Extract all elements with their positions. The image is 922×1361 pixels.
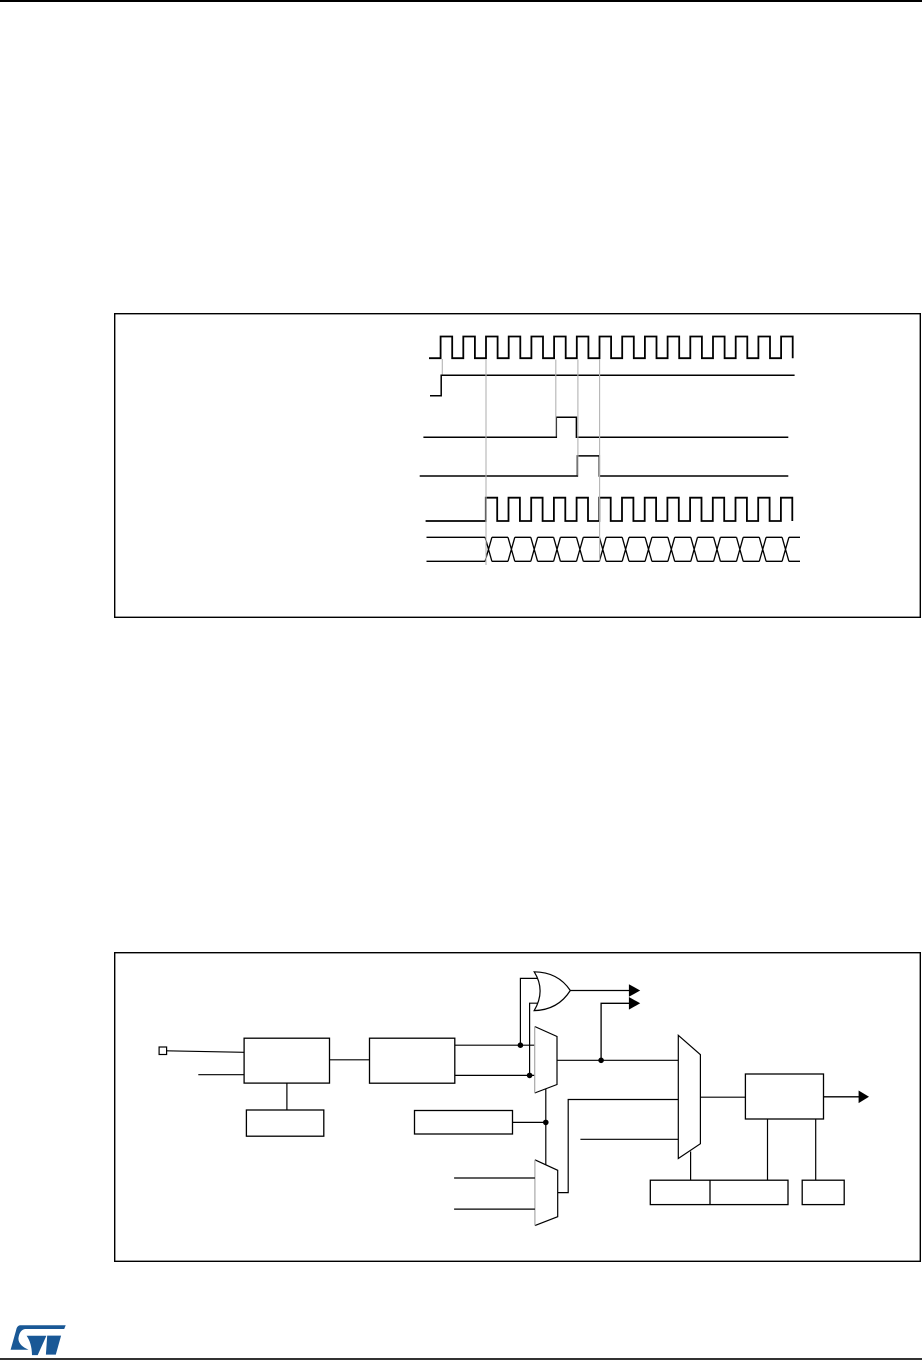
data bus waveform [427, 537, 801, 561]
guide line 5 [599, 360, 601, 561]
block B3 [415, 1111, 513, 1135]
mux M1 [535, 1027, 557, 1094]
wire open input to big mux M3 [580, 1138, 678, 1140]
page top rule [0, 0, 922, 2]
wire B4 left leg to block B5 [767, 1119, 769, 1180]
wire B2 upper output to mux M1 [455, 1044, 535, 1046]
arrowhead second output [629, 997, 640, 1010]
wire mux M1 bottom to mux M2 [545, 1089, 547, 1165]
block B1 [244, 1038, 329, 1083]
wire B2 lower output to mux M1 [455, 1074, 535, 1076]
arrowhead OR output [629, 984, 640, 997]
wire pin to block B1 [167, 1051, 245, 1053]
block B2 [370, 1038, 455, 1083]
wire B1 to B1b [286, 1083, 288, 1110]
figure 1 frame [115, 314, 921, 618]
wire mux M2 input 1 [454, 1177, 535, 1179]
junction dot below mux M1 [543, 1120, 549, 1126]
block B6 [802, 1180, 844, 1204]
wire to OR gate input 2 [530, 1003, 539, 1075]
OR gate U1 [534, 972, 570, 1011]
wire B1 to B2 [330, 1059, 370, 1061]
clock waveform CK [429, 337, 793, 359]
mux M2 [535, 1160, 558, 1226]
guide line 2 [485, 360, 487, 566]
figure 2 frame [115, 953, 921, 1262]
junction dot at OR input 1 tap [518, 1042, 524, 1048]
wire mux M2 input 2 [454, 1208, 535, 1210]
big mux M3 [678, 1035, 700, 1158]
update pulse signal 1 [423, 417, 788, 437]
input pin square [159, 1047, 167, 1055]
guide line 4 [577, 360, 579, 476]
arrowhead B4 output [859, 1091, 869, 1104]
wire second output arrow [601, 1003, 629, 1060]
block B5 (two cells) [650, 1180, 788, 1204]
update pulse signal 2 [420, 456, 789, 476]
wire lower input to block B1 [198, 1074, 244, 1076]
block B4 [745, 1074, 823, 1119]
wire B4 right leg to block B6 [815, 1119, 817, 1180]
block B1b [246, 1110, 323, 1136]
output clock waveform [426, 498, 793, 521]
wire B3 to junction [513, 1121, 546, 1123]
wire M3 output to block B4 [700, 1096, 745, 1098]
page bottom rule [0, 1358, 922, 1360]
ST logo [11, 1325, 66, 1355]
wire B4 output arrow [824, 1096, 860, 1098]
wire OR gate output [570, 990, 629, 992]
wire M3 bottom to block B5 [690, 1152, 692, 1181]
junction dot on M1 output [598, 1058, 604, 1064]
counter enable step signal [430, 375, 795, 396]
wire to OR gate input 1 [520, 978, 537, 1045]
guide line 1 [441, 359, 443, 375]
wire mux M1 output [557, 1059, 678, 1061]
wire mux M2 output to big mux M3 [558, 1100, 679, 1193]
guide line 3 [555, 360, 557, 437]
junction dot at OR input 2 tap [527, 1073, 533, 1079]
